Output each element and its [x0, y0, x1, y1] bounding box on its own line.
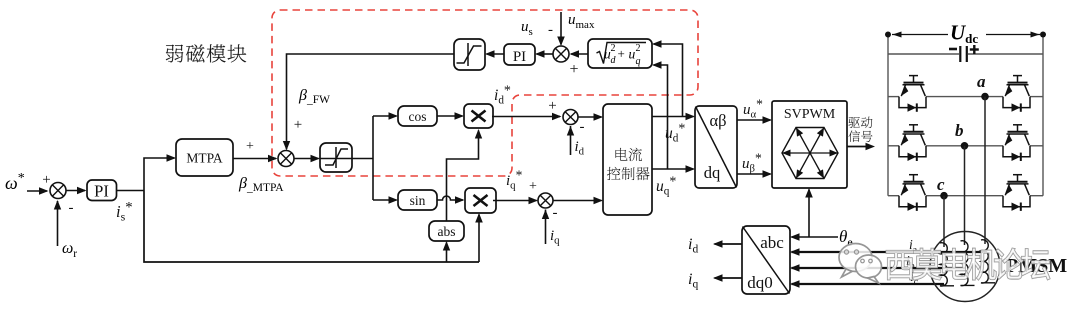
svg-text:+: + — [548, 98, 556, 114]
wire i_a into abc-dq0 — [792, 251, 986, 253]
svg-text:αβ: αβ — [709, 111, 726, 130]
svg-text:+: + — [294, 117, 302, 133]
svg-text:dq0: dq0 — [747, 273, 773, 292]
multiplier X1 block — [464, 104, 493, 128]
wire i_q output of abc-dq0 — [715, 277, 743, 279]
svg-text:cos: cos — [409, 109, 427, 124]
wire u_q-star branch to sqrt — [654, 65, 668, 169]
watermark logo and text — [839, 244, 882, 284]
svg-text:MTPA: MTPA — [186, 151, 223, 166]
multiplier X2 block — [465, 188, 496, 213]
summing junction J2 beta sum — [278, 151, 294, 167]
phase b row wire — [888, 145, 899, 147]
svg-text:a: a — [977, 72, 986, 91]
wire i_d output of abc-dq0 — [715, 243, 743, 245]
svg-text:-: - — [69, 200, 74, 216]
node a dot — [981, 93, 989, 101]
wire J2 to limiter L2 — [294, 158, 319, 160]
svg-text:dq: dq — [704, 163, 721, 182]
wire u_max stub into J5 — [560, 12, 562, 45]
wire sin to multiplier X2 with hop — [437, 196, 463, 200]
wire i_s feedback into abs — [446, 243, 448, 263]
svg-text:abs: abs — [438, 224, 456, 239]
summing junction J4 q-axis error — [538, 193, 553, 208]
svg-text:+: + — [529, 179, 537, 194]
svg-text:-: - — [580, 119, 585, 135]
wire branch to cos — [373, 115, 397, 117]
svg-text:u: u — [629, 47, 636, 62]
wire u_beta-star to SVPWM — [737, 173, 771, 175]
wire MTPA to summing junction J2 — [233, 158, 276, 160]
svg-text:-: - — [548, 22, 553, 38]
wire J5 to PI2 — [537, 53, 553, 55]
IGBT upper switch phase a — [899, 76, 926, 112]
label field-weakening module 弱磁模块 — [166, 44, 246, 62]
IGBT lower switch phase c — [1003, 175, 1030, 211]
stator winding phase a — [981, 240, 995, 283]
node c dot — [940, 192, 948, 200]
IGBT lower switch phase a — [1003, 76, 1030, 112]
field-weakening module dashed boundary — [272, 10, 698, 176]
wire J1 to speed PI — [66, 190, 85, 192]
MTPA block — [176, 139, 233, 176]
wire i_b into abc-dq0 — [792, 267, 965, 269]
IGBT lower switch phase b — [1003, 125, 1030, 161]
svg-text:PI: PI — [513, 49, 526, 65]
svg-text:2: 2 — [636, 43, 641, 54]
field-weakening PI block — [504, 44, 535, 65]
phase a row wire — [888, 96, 899, 98]
wire u_d-star to alphabeta-dq — [652, 116, 694, 118]
svg-text:+: + — [246, 139, 254, 154]
wire drive signal arrow — [847, 146, 872, 148]
phase b wire to motor — [964, 146, 966, 245]
wire PI2 to limiter L1 — [487, 53, 505, 55]
wire cos to multiplier X1 — [437, 115, 463, 117]
wire u_q-star to alphabeta-dq — [652, 168, 694, 170]
dc bus left rail — [887, 35, 889, 196]
wire abs output to X1 — [447, 131, 479, 222]
wire J3 to current controller — [578, 116, 602, 118]
wire J4 to current controller — [553, 200, 602, 202]
wire i_d feedback stub into J3 — [570, 126, 572, 155]
svg-text:sin: sin — [410, 193, 426, 208]
speed regulator PI block — [87, 180, 117, 201]
svg-text:c: c — [937, 175, 945, 194]
svg-text:2: 2 — [611, 43, 616, 54]
wire PI output to branch node — [117, 190, 145, 192]
current controller block 电流控制器 — [603, 104, 652, 215]
stator winding phase b — [961, 241, 975, 286]
wire omega-r feedback into J1 — [57, 201, 59, 246]
summing junction J5 voltage error — [553, 46, 569, 62]
svg-text:+: + — [569, 61, 578, 78]
wire i_c into abc-dq0 — [792, 283, 945, 285]
wire branch to sin — [373, 199, 397, 201]
sin block — [398, 190, 437, 210]
wire X1 to summing junction J3 — [492, 116, 560, 118]
IGBT upper switch phase b — [899, 125, 926, 161]
wire i_s feedback into X2 — [478, 215, 480, 263]
U_dc dimension arrows — [892, 34, 948, 36]
wire L1 to J2 beta_FW feedback — [287, 54, 455, 149]
svg-text:SVPWM: SVPWM — [784, 107, 836, 122]
alphabeta-dq transform block — [695, 106, 737, 188]
wire i_q feedback stub into J4 — [545, 210, 547, 245]
SVPWM sector hexagon — [782, 128, 838, 179]
phase c row wire — [888, 195, 899, 197]
wire u_d-star branch to sqrt — [654, 44, 683, 117]
SVPWM block — [772, 101, 847, 188]
summing junction J1 speed error — [50, 183, 66, 199]
wire branch up to MTPA — [144, 158, 175, 191]
svg-text:b: b — [955, 121, 964, 140]
wire theta_e into abc-dq0 — [792, 236, 839, 238]
stator winding phase c — [940, 243, 954, 286]
cos block — [398, 106, 437, 126]
wire theta_e branch up to SVPWM — [808, 190, 810, 238]
wire omega-star to summing junction — [27, 190, 47, 192]
summing junction J3 d-axis error — [563, 110, 578, 125]
wire X2 to summing junction J4 — [493, 200, 537, 202]
limiter block L1 voltage saturation — [454, 39, 485, 70]
svg-text:-: - — [553, 205, 558, 221]
abc-dq0 transform block — [742, 226, 790, 294]
limiter block L2 beta saturation — [320, 143, 352, 172]
PMSM motor circle — [930, 232, 1000, 302]
sqrt magnitude block — [588, 39, 652, 68]
abs block — [429, 221, 464, 241]
svg-text:abc: abc — [760, 233, 784, 252]
svg-text:+: + — [42, 172, 50, 188]
IGBT upper switch phase c — [899, 175, 926, 211]
dc bus right node dot — [1040, 32, 1046, 38]
label drive signal 驱动信号 — [848, 117, 872, 142]
phase c wire to motor — [943, 196, 945, 247]
dc bus left node dot — [885, 32, 891, 38]
svg-text:PI: PI — [94, 182, 109, 201]
svg-text:q: q — [636, 56, 641, 67]
wire i_s-star bottom feedback run — [144, 191, 479, 263]
node b dot — [961, 142, 969, 150]
dc link capacitor — [888, 53, 959, 55]
dc bus right rail — [1042, 35, 1044, 196]
wire branch vertical to cos and sin — [372, 116, 374, 200]
wire L2 to cos-sin branch — [352, 158, 373, 160]
wire u_alpha-star to SVPWM — [737, 119, 771, 121]
wire sqrt to summing junction J5 — [571, 53, 588, 55]
svg-text:+: + — [618, 46, 625, 61]
phase a wire to motor — [984, 97, 986, 244]
